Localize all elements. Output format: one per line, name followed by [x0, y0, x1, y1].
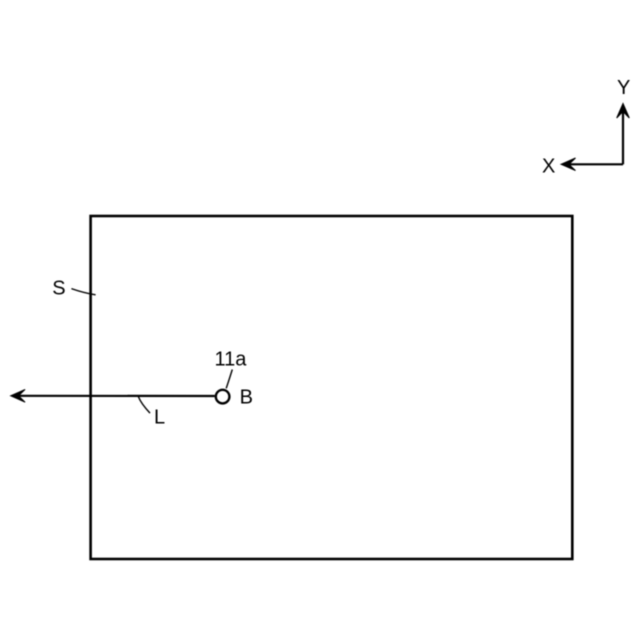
Y axis arrowhead (upward): [617, 104, 630, 119]
wire: line L horizontal: [19, 395, 215, 397]
svg-text:B: B: [240, 386, 253, 408]
leader line from L to line: [138, 397, 150, 414]
X axis arrowhead (leftward): [561, 158, 576, 171]
Y axis line: [622, 112, 624, 165]
X axis line: [569, 163, 623, 165]
svg-text:11a: 11a: [215, 348, 248, 370]
surface S rectangle: [91, 216, 573, 559]
svg-text:Y: Y: [617, 77, 630, 99]
leader line from S to rectangle edge: [71, 289, 95, 295]
svg-text:L: L: [154, 407, 165, 429]
arrowhead of line L (leftward): [11, 389, 26, 402]
node B circle: [216, 390, 230, 404]
svg-text:X: X: [542, 155, 555, 177]
leader line from 11a to circle B: [226, 370, 232, 389]
svg-text:S: S: [52, 277, 65, 299]
